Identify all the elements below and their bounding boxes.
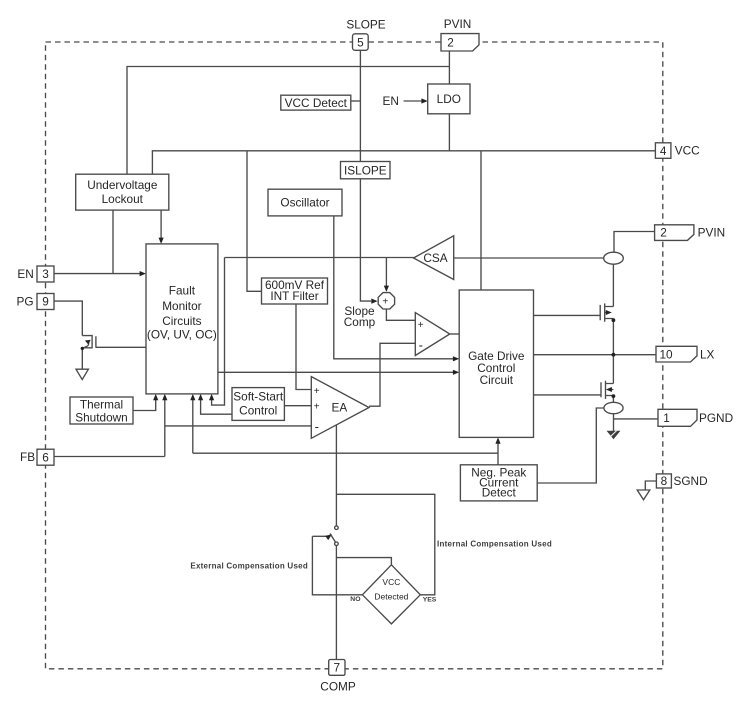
wire: EA compensation node down to switch (335, 424, 337, 526)
svg-text:2: 2 (447, 36, 454, 50)
svg-text:Soft-Start: Soft-Start (233, 390, 284, 404)
block: Fault Monitor Circuits (OV, UV, OC) (146, 244, 218, 394)
svg-text:Control: Control (239, 404, 277, 418)
svg-text:LDO: LDO (437, 92, 461, 106)
pin LX 10 (right) (656, 346, 715, 362)
svg-text:Detected: Detected (374, 591, 408, 601)
ground (power stage PGND) (608, 431, 620, 439)
switch contact lower (335, 542, 339, 546)
svg-text:(OV, UV, OC): (OV, UV, OC) (147, 327, 217, 341)
block: Gate Drive Control Circuit (459, 290, 533, 437)
wire: VCC Detect to SLOPE line (351, 100, 360, 102)
svg-text:Detect: Detect (482, 486, 517, 500)
wire: PG transistor source to ground (81, 348, 83, 369)
op-amp CSA current sense amplifier (414, 236, 454, 280)
wire: switch lower contact to diamond top (336, 558, 391, 565)
wire: PVIN pin to high-side sense (614, 232, 655, 253)
pin PVIN 2 (top) (441, 17, 479, 51)
svg-text:5: 5 (357, 35, 364, 49)
pin SGND 8 (right) (656, 474, 707, 488)
wire: CSA output arrow down into summing node (384, 258, 389, 292)
pin PG 9 (left) (17, 294, 55, 310)
wire: neg peak current detect arrow into gate drive bottom (495, 437, 500, 464)
svg-text:4: 4 (660, 144, 667, 158)
ground (PG source) (76, 369, 88, 379)
svg-text:YES: YES (423, 597, 437, 604)
svg-text:EN: EN (383, 94, 399, 108)
wire: LDO bottom to VCC rail (448, 114, 450, 151)
wire: VCC rail to 600mV ref filter (247, 151, 262, 291)
wire: FB to fault monitor arrow 2 (190, 394, 195, 453)
block: ISLOPE (341, 162, 391, 179)
IC boundary dashed border (46, 42, 663, 669)
wire: gate drive to low-side gate (534, 394, 601, 396)
wire: VCC rail (152, 151, 656, 174)
block: Oscillator (268, 189, 342, 216)
svg-text:3: 3 (42, 267, 49, 281)
wire: high-side drain from sense ellipse (612, 264, 614, 306)
svg-text:SlopeComp: SlopeComp (344, 304, 376, 329)
wire: SGND pin to ground (645, 481, 656, 490)
svg-text:Shutdown: Shutdown (75, 410, 127, 424)
svg-text:7: 7 (334, 661, 341, 675)
wire: EA output up to PWM comparator - (369, 343, 415, 406)
pin PGND 1 (right) (658, 409, 733, 426)
svg-text:FB: FB (20, 450, 35, 464)
wire: fault monitor line to gate drive bottom node (193, 452, 498, 454)
svg-text:+: + (382, 296, 388, 307)
block: Undervoltage Lockout (76, 174, 169, 210)
pin COMP 7 (bottom) (320, 660, 356, 694)
ground (SGND) (637, 490, 650, 500)
wire: internal compensation branch to diamond YES (336, 494, 434, 595)
wire: switch lower contact down to COMP pin (335, 546, 337, 660)
svg-text:Circuits: Circuits (162, 314, 201, 328)
block: 600mV Ref INT Filter (262, 278, 328, 304)
svg-text:External Compensation Used: External Compensation Used (190, 562, 308, 571)
pin SLOPE 5 (top) (346, 18, 385, 51)
svg-text:COMP: COMP (320, 679, 356, 693)
svg-text:SGND: SGND (674, 474, 708, 488)
wire: UVL output arrow into fault monitor top (159, 210, 164, 244)
wire: EN arrow into LDO (404, 98, 428, 103)
block: Soft-Start Control (232, 388, 284, 421)
wire: LX line from gate drive to pin (534, 354, 657, 356)
transistor Q1 high-side MOSFET (600, 303, 613, 321)
op-amp EA error amplifier (311, 377, 369, 439)
pin PVIN 2 (right) (655, 225, 726, 241)
svg-text:9: 9 (42, 295, 49, 309)
svg-text:Lockout: Lockout (102, 192, 144, 206)
svg-text:ISLOPE: ISLOPE (344, 163, 387, 177)
wire: UVL output to EN line (112, 210, 114, 274)
svg-text:VCC: VCC (675, 144, 700, 158)
svg-text:6: 6 (42, 450, 49, 464)
wire: FB node to EA inverting input (165, 425, 311, 427)
block: Thermal Shutdown (70, 397, 133, 424)
wire: oscillator output to gate drive control (334, 216, 459, 362)
op-amp PWM comparator (415, 313, 450, 356)
svg-text:1: 1 (663, 411, 670, 425)
wire: summing node output to PWM comparator + (386, 309, 415, 320)
block: LDO (428, 84, 470, 114)
pin EN 3 (left) (17, 266, 54, 282)
svg-text:Internal Compensation Used: Internal Compensation Used (437, 540, 552, 549)
svg-text:EN: EN (17, 267, 33, 281)
svg-text:PG: PG (17, 294, 34, 308)
svg-text:-: - (419, 338, 423, 353)
switch contact upper (335, 526, 339, 530)
svg-text:+: + (418, 320, 424, 331)
wire: PG transistor gate to fault monitor (96, 346, 146, 348)
transistor Q2 low-side MOSFET (601, 381, 613, 399)
svg-text:SLOPE: SLOPE (346, 18, 385, 32)
block: VCC Detect (281, 95, 351, 110)
svg-text:2: 2 (660, 226, 667, 240)
svg-text:NO: NO (350, 596, 360, 603)
wire: SLOPE pin 5 down to slope comp summing node (360, 50, 377, 303)
wire: switch lever (330, 534, 337, 545)
wire: gate drive to high-side gate (534, 314, 601, 316)
svg-text:EA: EA (332, 401, 348, 415)
svg-text:+: + (314, 386, 320, 397)
wire: external branch arrow at switch (312, 534, 332, 540)
wire: fault monitor arrow into gate drive (218, 370, 459, 375)
svg-text:8: 8 (661, 474, 668, 488)
wire: soft-start output to EA + input (284, 405, 311, 407)
transistor Q3 power-good open-drain (82, 336, 96, 348)
decision diamond VCC Detected (362, 565, 420, 624)
wire: current sense signal to fault monitor (OC) (209, 258, 225, 406)
svg-text:Undervoltage: Undervoltage (87, 178, 158, 192)
svg-text:Oscillator: Oscillator (280, 196, 329, 210)
wire: external compensation branch to diamond NO (312, 536, 362, 595)
svg-text:Thermal: Thermal (80, 397, 123, 411)
svg-text:CSA: CSA (423, 251, 447, 265)
wire: EN pin to fault monitor (54, 271, 146, 276)
svg-text:+: + (314, 402, 320, 413)
wire: CSA input line from current sense (454, 257, 604, 259)
junction PG source (81, 347, 84, 350)
wire: high-side source to LX to low-side drain (612, 319, 614, 384)
wire: FB to fault monitor arrow 1 (162, 394, 167, 457)
svg-text:PGND: PGND (699, 411, 733, 425)
current sense ellipse (low-side) (604, 402, 623, 413)
current sense ellipse (high-side) (604, 252, 624, 264)
wire: 600mV ref output to EA + input (296, 304, 311, 390)
svg-text:10: 10 (659, 347, 673, 361)
wire: neg peak current detect to low-side sense (537, 408, 604, 483)
junction high-side source (612, 318, 616, 322)
wire: low-side source node to PGND pin (614, 418, 659, 420)
wire: soft-start control arrow into fault monitor bottom (198, 394, 232, 414)
wire: FB pin line (54, 456, 165, 458)
svg-text:LX: LX (700, 347, 715, 361)
wire: PWM comparator output to gate drive (450, 333, 459, 335)
summing node slope comp (378, 293, 394, 309)
svg-text:Fault: Fault (169, 283, 196, 297)
block: Neg. Peak Current Detect (460, 465, 537, 501)
junction node LX (612, 353, 616, 357)
wire: undervoltage lockout top to PVIN/LDO line (127, 67, 449, 175)
wire: VCC rail down into gate drive top (480, 151, 482, 290)
wire: thermal shutdown arrow into fault monitor bottom (133, 394, 158, 411)
svg-text:VCC Detect: VCC Detect (285, 96, 348, 110)
svg-text:Circuit: Circuit (480, 373, 514, 387)
wire: PG pin down to PG transistor drain (54, 301, 82, 336)
wire: PVIN pin 2 down to LDO (448, 51, 450, 84)
junction low-side source (612, 394, 616, 398)
svg-text:Monitor: Monitor (162, 299, 201, 313)
svg-text:VCC: VCC (382, 577, 400, 587)
wire: CSA output line (225, 257, 414, 259)
svg-text:-: - (315, 419, 319, 434)
svg-text:INT Filter: INT Filter (270, 289, 318, 303)
pin FB 6 (left) (20, 449, 54, 465)
svg-text:PVIN: PVIN (444, 17, 472, 31)
pin VCC 4 (right) (655, 143, 700, 159)
wire: low-side source to sense ellipse and ground (612, 396, 614, 432)
svg-text:PVIN: PVIN (698, 225, 726, 239)
